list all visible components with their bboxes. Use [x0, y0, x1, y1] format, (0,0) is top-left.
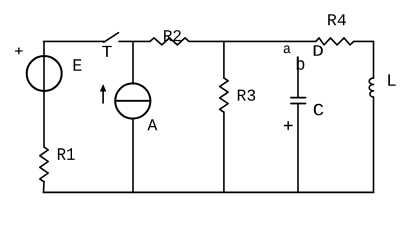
wire top rail switch to R2: [119, 40, 150, 42]
inductor L: [369, 78, 373, 97]
label R1: [58, 148, 75, 160]
label R2: [164, 30, 181, 41]
wire capacitor branch lower: [297, 104, 299, 193]
capacitor C bottom plate: [291, 103, 306, 105]
current source A chord: [115, 100, 150, 102]
wire right rail lower: [373, 97, 375, 192]
label a (node a): [284, 45, 291, 53]
voltage source E circle: [27, 56, 62, 91]
label b (node b): [297, 57, 305, 70]
wire current-source branch upper: [132, 41, 134, 83]
wire top rail R4 to corner: [354, 40, 374, 42]
wire R3 branch upper: [223, 41, 225, 78]
current source A circle: [115, 83, 150, 118]
label L: [388, 74, 395, 86]
label R4: [328, 14, 346, 25]
wire R1 to bottom corner: [43, 182, 46, 193]
wire top rail left segment: [44, 40, 104, 42]
resistor R2: [150, 38, 189, 45]
switch T blade: [104, 33, 119, 43]
resistor R4: [316, 38, 354, 45]
label R3: [238, 90, 255, 101]
capacitor C top plate: [291, 97, 306, 99]
wire left rail (through source E): [43, 41, 45, 147]
label C: [314, 104, 324, 116]
wire top rail R2 to R4: [189, 40, 316, 42]
label T: [102, 46, 112, 57]
wire R3 branch lower: [223, 112, 225, 192]
label D: [314, 45, 323, 56]
label + (capacitor C polarity): [284, 121, 293, 130]
label A: [147, 119, 157, 130]
wire capacitor branch upper (node b stub): [297, 57, 299, 98]
resistor R1: [40, 147, 48, 182]
label E: [74, 59, 82, 71]
resistor R3: [220, 78, 228, 112]
label + (source E polarity): [15, 48, 23, 55]
current direction arrow shaft: [102, 90, 104, 103]
wire current-source branch lower: [132, 119, 134, 193]
current direction arrow head: [100, 84, 106, 92]
wire right rail upper: [373, 41, 375, 78]
wire bottom rail: [44, 191, 374, 193]
